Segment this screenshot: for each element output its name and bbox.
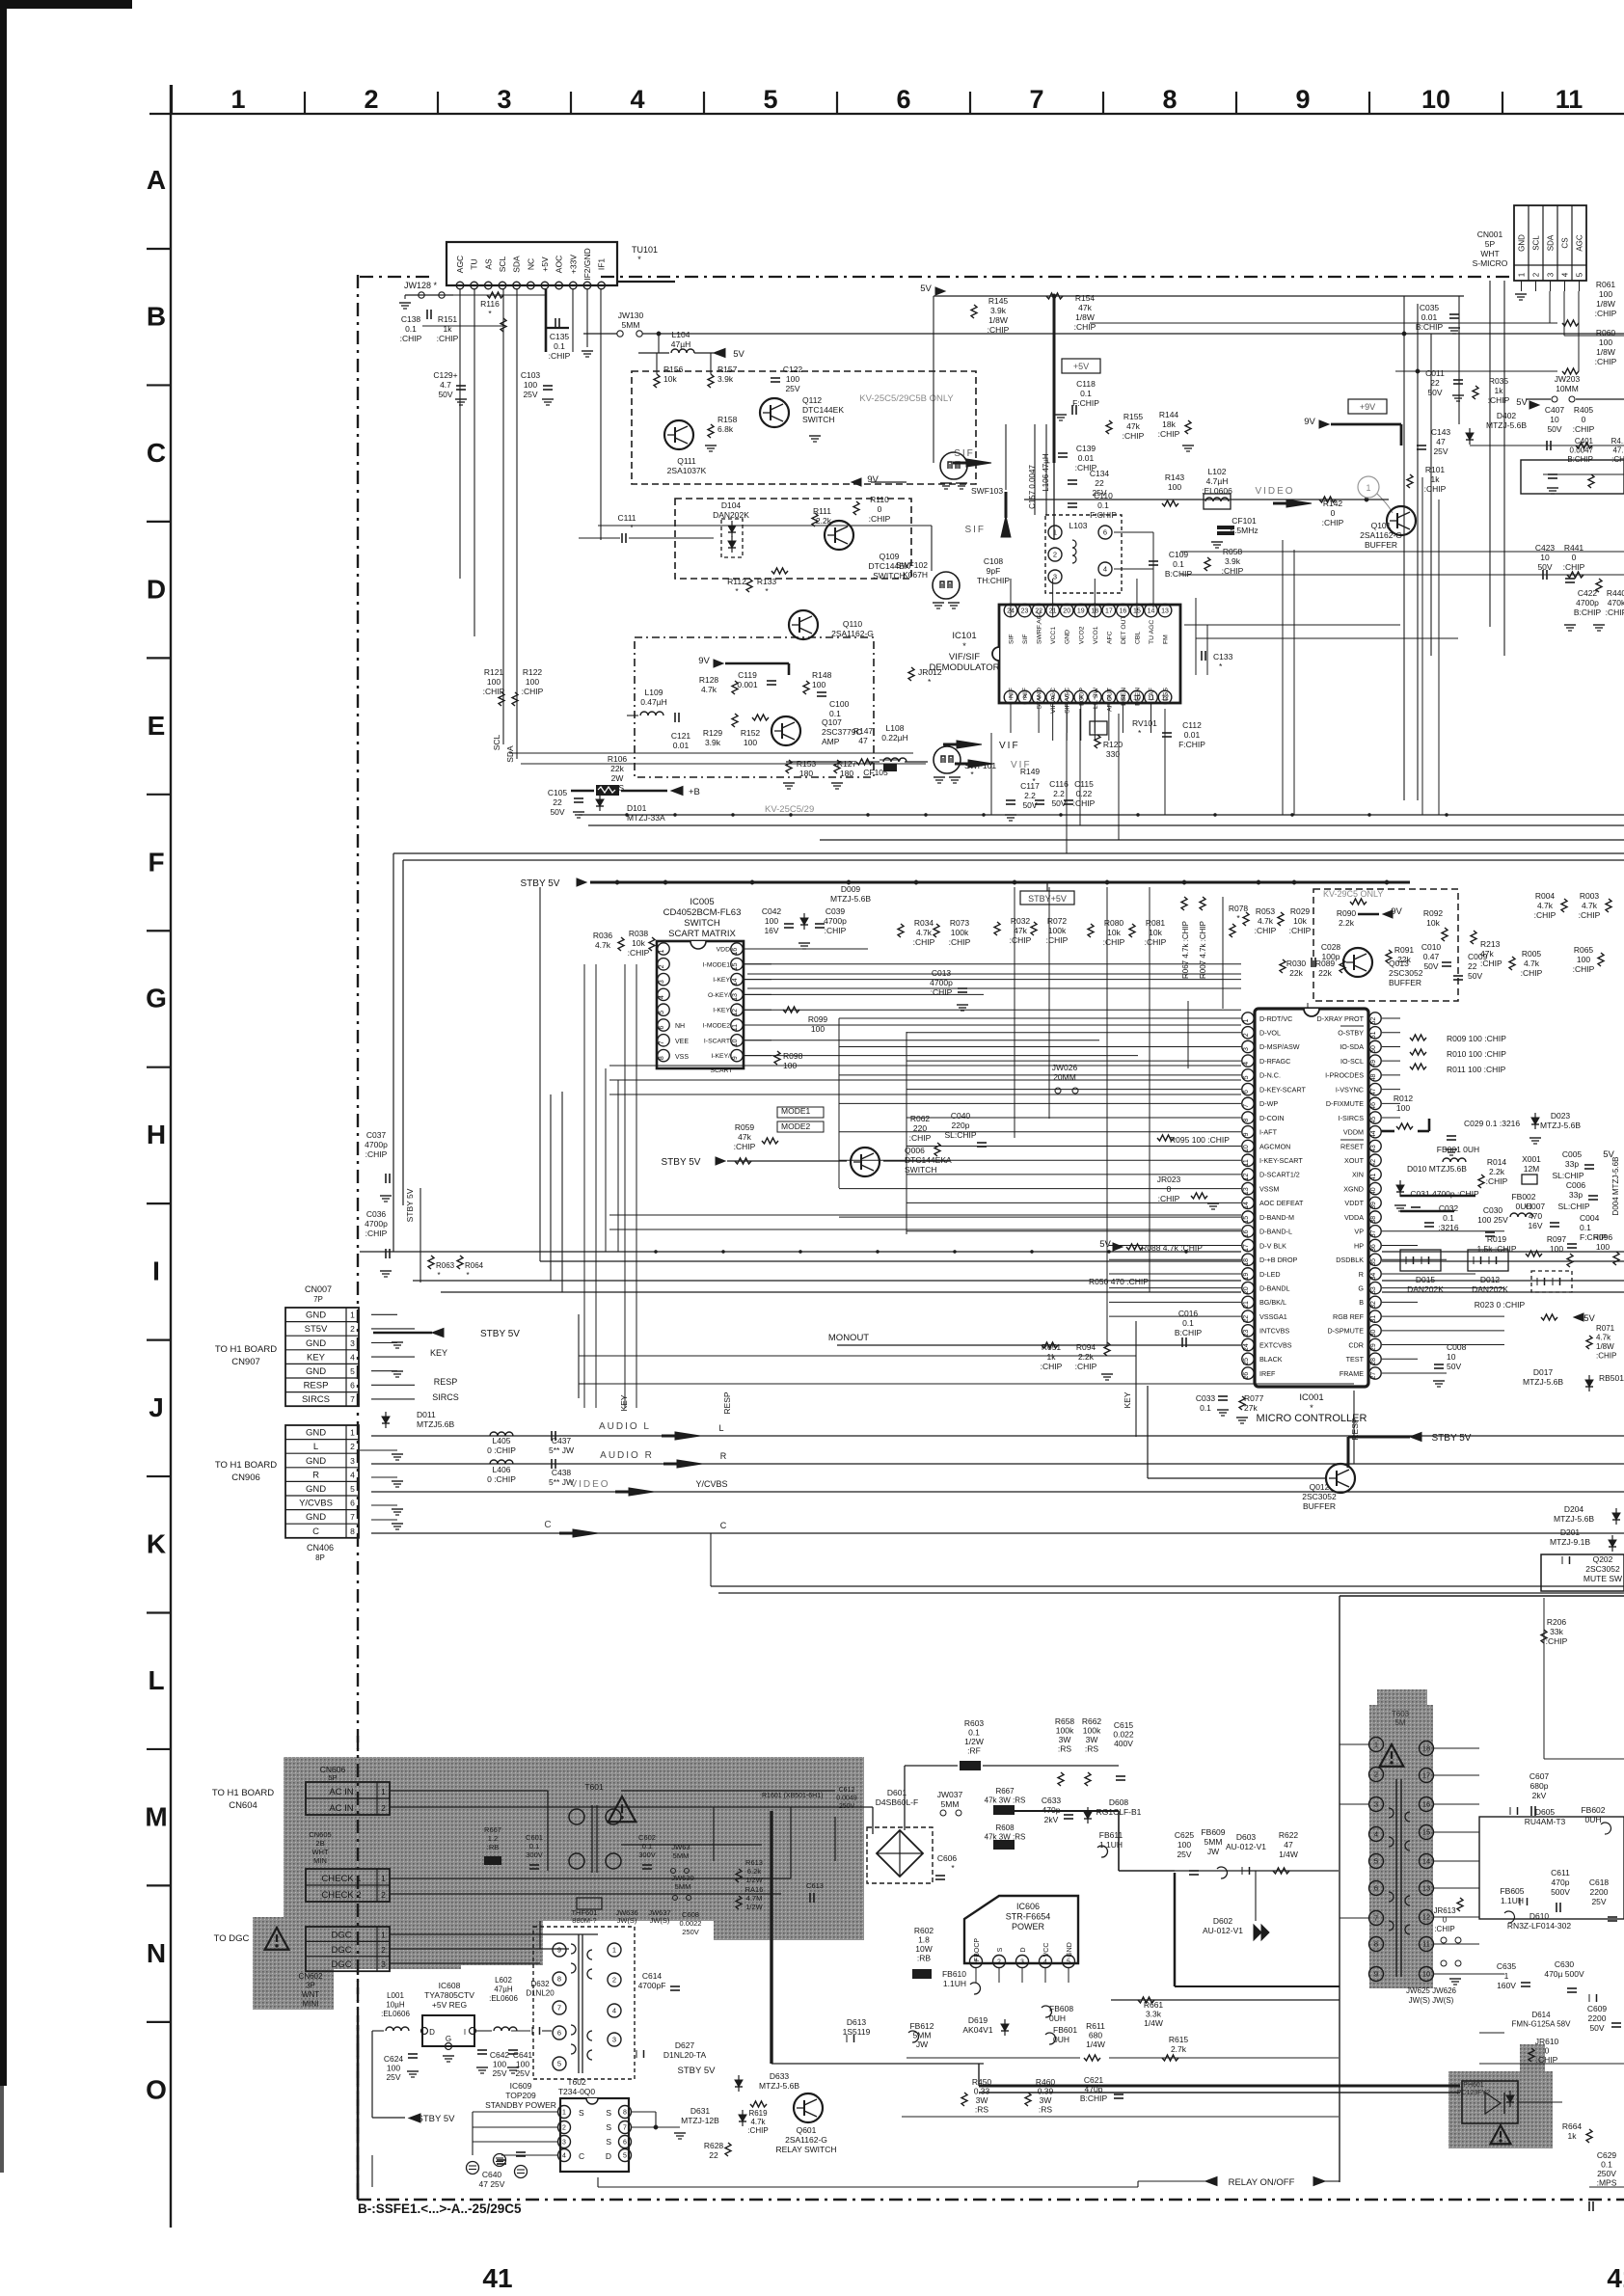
- svg-text:0.01: 0.01: [1184, 730, 1201, 740]
- svg-text:R206: R206: [1547, 1617, 1567, 1627]
- svg-text:2SC3052: 2SC3052: [1585, 1564, 1620, 1574]
- svg-text:FMN-G125A 58V: FMN-G125A 58V: [1512, 2020, 1572, 2029]
- svg-text:D-SCART1/2: D-SCART1/2: [1259, 1171, 1300, 1179]
- svg-text:16V: 16V: [1528, 1221, 1542, 1230]
- svg-text::EL0606: :EL0606: [489, 1994, 518, 2003]
- svg-text:C119: C119: [738, 670, 757, 680]
- svg-text:680: 680: [1089, 2031, 1102, 2040]
- svg-text:VCC: VCC: [1043, 1943, 1050, 1958]
- svg-text:D-FIXMUTE: D-FIXMUTE: [1326, 1099, 1364, 1108]
- svg-text:R091: R091: [1394, 945, 1415, 955]
- svg-text:JW625 JW626: JW625 JW626: [1406, 1986, 1457, 1995]
- svg-text:2SA1037K: 2SA1037K: [667, 466, 707, 475]
- svg-text:23: 23: [1243, 1329, 1250, 1337]
- svg-text:3.3k: 3.3k: [1146, 2010, 1162, 2019]
- svg-text:AC IN: AC IN: [329, 1787, 353, 1797]
- svg-text:44: 44: [1370, 1130, 1377, 1138]
- svg-text:R099: R099: [808, 1014, 828, 1024]
- svg-text::CHIP: :CHIP: [437, 334, 459, 343]
- svg-text:SCL: SCL: [492, 734, 501, 750]
- svg-text:50V: 50V: [1537, 562, 1552, 572]
- svg-text:HP: HP: [1354, 1241, 1364, 1250]
- svg-text:O-KEY/: O-KEY/: [708, 992, 730, 999]
- svg-text::CHIP: :CHIP: [913, 937, 935, 947]
- svg-text:470µ 500V: 470µ 500V: [1544, 1969, 1584, 1979]
- svg-text:C108: C108: [984, 556, 1004, 566]
- svg-text:R063: R063: [436, 1261, 455, 1270]
- svg-text:JW(S): JW(S): [617, 1916, 637, 1925]
- svg-text:42: 42: [1370, 1159, 1377, 1167]
- svg-text:D: D: [1020, 1947, 1027, 1952]
- svg-text:250V: 250V: [1597, 2169, 1616, 2178]
- svg-text:4.7k: 4.7k: [916, 928, 933, 937]
- svg-text:17: 17: [1243, 1244, 1250, 1252]
- svg-text:4: 4: [1243, 1062, 1250, 1066]
- svg-text:R661: R661: [1144, 2000, 1164, 2010]
- svg-text:1/2W: 1/2W: [745, 1876, 763, 1884]
- svg-text:STR-F6654: STR-F6654: [1006, 1912, 1051, 1922]
- svg-text:2.2: 2.2: [1024, 791, 1036, 800]
- svg-text:C100: C100: [829, 699, 850, 709]
- svg-text:R072: R072: [1047, 916, 1068, 926]
- svg-text::CHIP: :CHIP: [1434, 1925, 1454, 1933]
- svg-text:C629: C629: [1597, 2150, 1617, 2160]
- svg-text:DEMODULATOR: DEMODULATOR: [929, 662, 999, 673]
- svg-text:L104: L104: [672, 330, 690, 339]
- svg-text:STBY+5V: STBY+5V: [1028, 894, 1067, 904]
- svg-text:+9V: +9V: [1360, 402, 1375, 412]
- svg-text:DET OUT: DET OUT: [1121, 615, 1127, 644]
- svg-text:BUFFER: BUFFER: [1389, 978, 1421, 987]
- svg-text::CHIP: :CHIP: [1255, 926, 1277, 935]
- svg-text:D602: D602: [1213, 1916, 1233, 1926]
- svg-text:IO-SCL: IO-SCL: [1340, 1057, 1364, 1066]
- svg-text:1/2W: 1/2W: [745, 1903, 763, 1911]
- svg-text:0.22: 0.22: [1076, 789, 1093, 798]
- svg-text:C: C: [147, 438, 166, 468]
- svg-text:C607: C607: [1529, 1771, 1550, 1781]
- svg-text:C042: C042: [762, 906, 782, 916]
- svg-text:JW128 *: JW128 *: [404, 281, 438, 290]
- svg-text:22: 22: [1243, 1315, 1250, 1323]
- svg-text:2: 2: [350, 1442, 355, 1451]
- svg-text:1: 1: [659, 950, 665, 954]
- svg-text:GND: GND: [306, 1484, 326, 1495]
- svg-text:25V: 25V: [386, 2072, 400, 2082]
- svg-text:R050 470 :CHIP: R050 470 :CHIP: [1089, 1277, 1149, 1286]
- svg-text::RS: :RS: [1085, 1744, 1099, 1754]
- svg-text:CBL: CBL: [1134, 632, 1141, 644]
- svg-text:22: 22: [1430, 378, 1440, 388]
- svg-text:R096: R096: [1593, 1232, 1613, 1242]
- svg-text::CHIP: :CHIP: [1546, 1636, 1568, 1646]
- svg-text:MUTE SW: MUTE SW: [1583, 1574, 1622, 1583]
- svg-text:D627: D627: [675, 2040, 695, 2050]
- svg-text:C407: C407: [1545, 405, 1565, 415]
- svg-text:T602: T602: [567, 2077, 586, 2087]
- svg-text:R154: R154: [1075, 293, 1096, 303]
- svg-text:47k: 47k: [1078, 303, 1092, 312]
- svg-text:FBOCP: FBOCP: [974, 1938, 981, 1961]
- svg-text:7: 7: [623, 2125, 627, 2132]
- svg-text:R615: R615: [1169, 2035, 1189, 2044]
- svg-text:3P: 3P: [306, 1982, 315, 1990]
- svg-text:C033: C033: [1196, 1393, 1216, 1403]
- svg-text:C: C: [544, 1520, 551, 1530]
- svg-text:180: 180: [799, 769, 813, 778]
- svg-text:R622: R622: [1279, 1830, 1299, 1840]
- svg-text:Y/CVBS: Y/CVBS: [299, 1499, 333, 1509]
- svg-text:JW: JW: [1207, 1847, 1219, 1856]
- svg-text:1: 1: [562, 2110, 566, 2117]
- svg-text:BLACK: BLACK: [1259, 1355, 1283, 1364]
- svg-text:R145: R145: [988, 296, 1009, 306]
- svg-text:8P: 8P: [315, 1553, 325, 1562]
- svg-text:20: 20: [1243, 1286, 1250, 1294]
- svg-text:7: 7: [350, 1394, 355, 1404]
- svg-text:22k: 22k: [1318, 968, 1332, 978]
- svg-text:4: 4: [350, 1352, 355, 1362]
- svg-text:180: 180: [840, 769, 853, 778]
- svg-text:10: 10: [1447, 1352, 1456, 1362]
- svg-text:R014: R014: [1487, 1157, 1507, 1167]
- svg-text:1/8W: 1/8W: [1075, 312, 1095, 322]
- svg-text:25V: 25V: [1433, 446, 1448, 456]
- svg-text:AU-012-V1: AU-012-V1: [1226, 1842, 1266, 1851]
- svg-text:C143: C143: [1431, 427, 1451, 437]
- svg-text:10: 10: [1421, 85, 1450, 114]
- svg-text:C: C: [312, 1526, 319, 1537]
- svg-text:0.01: 0.01: [1421, 312, 1438, 322]
- svg-text:41: 41: [482, 2263, 512, 2293]
- svg-text:VIDEO: VIDEO: [1255, 486, 1294, 497]
- svg-text:2kV: 2kV: [1532, 1791, 1547, 1800]
- svg-text:51: 51: [1370, 1031, 1377, 1039]
- svg-text:100k: 100k: [1056, 1726, 1074, 1736]
- svg-text:39: 39: [1370, 1202, 1377, 1209]
- svg-text:VDD: VDD: [717, 947, 730, 954]
- svg-text::CHIP: :CHIP: [1521, 968, 1543, 978]
- svg-text:DEEN: DEEN: [1121, 688, 1127, 706]
- svg-text:22k: 22k: [1397, 955, 1411, 964]
- svg-text:10k: 10k: [663, 374, 677, 384]
- svg-text:C031 4700p :CHIP: C031 4700p :CHIP: [1410, 1189, 1479, 1199]
- svg-text:L: L: [313, 1442, 318, 1452]
- svg-text:11: 11: [1422, 1940, 1430, 1949]
- svg-text:0.1: 0.1: [405, 324, 417, 334]
- svg-text:C116: C116: [1049, 779, 1069, 789]
- svg-text::CHIP: :CHIP: [1010, 935, 1032, 945]
- svg-text:D-MSP/ASW: D-MSP/ASW: [1259, 1042, 1300, 1051]
- svg-text:100: 100: [1596, 1242, 1610, 1252]
- svg-text:F: F: [148, 847, 164, 877]
- svg-text:0: 0: [1582, 415, 1586, 424]
- svg-text:R092: R092: [1423, 908, 1444, 918]
- svg-text:R078: R078: [1229, 904, 1249, 913]
- svg-text:C606: C606: [937, 1853, 958, 1863]
- svg-text:4: 4: [1103, 565, 1107, 574]
- svg-text:C438: C438: [552, 1468, 572, 1477]
- svg-text:2: 2: [381, 1803, 386, 1813]
- svg-text:RESP: RESP: [304, 1381, 329, 1391]
- svg-text:1k: 1k: [444, 324, 453, 334]
- svg-text:3: 3: [1243, 1047, 1250, 1051]
- svg-text:RESET: RESET: [1340, 1142, 1365, 1150]
- svg-text:C613: C613: [806, 1881, 824, 1890]
- svg-text:SWITCH: SWITCH: [802, 415, 835, 424]
- svg-text:50V: 50V: [1468, 971, 1482, 981]
- svg-text:STAND: STAND: [1037, 688, 1043, 710]
- svg-text:R157: R157: [717, 365, 738, 374]
- svg-text:STBY 5V: STBY 5V: [480, 1329, 520, 1339]
- svg-text:FB001 0UH: FB001 0UH: [1437, 1145, 1479, 1154]
- svg-text:AGC: AGC: [455, 256, 465, 273]
- svg-text:JR610: JR610: [1535, 2037, 1559, 2046]
- svg-text:C006: C006: [1566, 1180, 1586, 1190]
- svg-text:0: 0: [878, 504, 882, 514]
- svg-text:21: 21: [1243, 1301, 1250, 1309]
- svg-text:47: 47: [1436, 437, 1446, 446]
- svg-text:0.47µH: 0.47µH: [640, 697, 667, 707]
- svg-text:1: 1: [1374, 1741, 1378, 1749]
- svg-text:22: 22: [1468, 961, 1477, 971]
- svg-text:13: 13: [1243, 1187, 1250, 1195]
- svg-text:FB609: FB609: [1201, 1827, 1225, 1837]
- svg-text:52: 52: [1370, 1017, 1377, 1025]
- svg-text:4.7µH: 4.7µH: [1206, 476, 1229, 486]
- svg-text::CHIP: :CHIP: [365, 1149, 388, 1159]
- svg-text:C008: C008: [1447, 1342, 1467, 1352]
- svg-text:C618: C618: [1589, 1877, 1610, 1887]
- svg-text:SCL: SCL: [498, 256, 507, 272]
- svg-text:R081: R081: [1146, 918, 1166, 928]
- svg-text:D-V BLK: D-V BLK: [1259, 1241, 1286, 1250]
- svg-text:R122: R122: [523, 667, 543, 677]
- svg-text:C007: C007: [1526, 1202, 1546, 1211]
- svg-text:C: C: [579, 2151, 584, 2161]
- svg-text:18: 18: [1422, 1744, 1430, 1753]
- svg-text:3: 3: [1547, 272, 1556, 277]
- svg-text:C115: C115: [1074, 779, 1094, 789]
- svg-text:SWITCH: SWITCH: [873, 571, 906, 581]
- svg-text:R667: R667: [484, 1825, 501, 1834]
- svg-text:D-BAND-L: D-BAND-L: [1259, 1228, 1292, 1236]
- svg-text:SDA: SDA: [1547, 234, 1556, 251]
- svg-text:9V: 9V: [867, 474, 879, 485]
- svg-text:JR023: JR023: [1157, 1175, 1181, 1184]
- svg-text:JW203: JW203: [1555, 374, 1581, 384]
- svg-text:28: 28: [1370, 1358, 1377, 1365]
- svg-text:49: 49: [1370, 1060, 1377, 1067]
- svg-text:5: 5: [659, 1011, 665, 1014]
- svg-text::RB: :RB: [487, 1843, 500, 1851]
- svg-text:SIF AGC: SIF AGC: [1065, 688, 1071, 714]
- svg-text:I-KEY-SCART: I-KEY-SCART: [1259, 1156, 1303, 1165]
- svg-text:0.01: 0.01: [1078, 453, 1095, 463]
- svg-text:CN604: CN604: [229, 1800, 257, 1811]
- svg-text:5MM: 5MM: [622, 320, 640, 330]
- svg-text:0: 0: [1545, 2046, 1550, 2056]
- svg-text:*: *: [466, 1271, 469, 1280]
- svg-text:R158: R158: [717, 415, 738, 424]
- svg-text:WHT: WHT: [311, 1848, 328, 1856]
- svg-text:5: 5: [350, 1484, 355, 1494]
- svg-text:D-VOL: D-VOL: [1259, 1029, 1281, 1038]
- svg-text:I-SIRCS: I-SIRCS: [1339, 1114, 1365, 1122]
- svg-text:*: *: [437, 1271, 440, 1280]
- svg-text:F:CHIP: F:CHIP: [1178, 740, 1205, 749]
- svg-text:R005: R005: [1522, 949, 1542, 959]
- svg-text:FB605: FB605: [1500, 1886, 1524, 1896]
- svg-text:B-:SSFE1.<...>-A..-25/29C5: B-:SSFE1.<...>-A..-25/29C5: [358, 2201, 522, 2216]
- svg-text:T603: T603: [1392, 1710, 1410, 1718]
- svg-text:4.7: 4.7: [440, 380, 451, 390]
- svg-text:1/8W: 1/8W: [1596, 299, 1615, 309]
- svg-text:0.1: 0.1: [1097, 500, 1109, 510]
- svg-text:100: 100: [812, 680, 826, 689]
- svg-text:R: R: [720, 1451, 727, 1461]
- svg-text:36: 36: [1370, 1244, 1377, 1252]
- svg-text:CD4052BCM-FL63: CD4052BCM-FL63: [663, 907, 742, 918]
- svg-text:I-KEY/: I-KEY/: [711, 1053, 730, 1060]
- svg-text:3: 3: [1020, 1959, 1024, 1966]
- svg-text:100: 100: [1599, 289, 1612, 299]
- svg-text::CHIP: :CHIP: [549, 351, 571, 361]
- svg-text:RELAY SWITCH: RELAY SWITCH: [776, 2145, 837, 2154]
- svg-text:GND: GND: [306, 1310, 326, 1321]
- svg-text:C612: C612: [839, 1787, 855, 1794]
- svg-text:C011: C011: [1425, 368, 1445, 378]
- svg-text:+5V: +5V: [1073, 362, 1089, 371]
- svg-text:1/8W: 1/8W: [1596, 1342, 1614, 1351]
- svg-text:SIRCS: SIRCS: [432, 1392, 459, 1402]
- svg-text:B: B: [147, 301, 166, 331]
- svg-text:9V: 9V: [698, 656, 710, 666]
- svg-text:1k: 1k: [1431, 474, 1441, 484]
- svg-text:330: 330: [1106, 749, 1120, 759]
- svg-text:46: 46: [1370, 1102, 1377, 1110]
- svg-text:10: 10: [732, 1039, 739, 1046]
- svg-text:CHECK 2: CHECK 2: [321, 1890, 361, 1901]
- svg-text:R149: R149: [1020, 767, 1041, 776]
- svg-text:25V: 25V: [1177, 1850, 1191, 1859]
- svg-text:D-XRAY PROT: D-XRAY PROT: [1317, 1014, 1365, 1023]
- svg-text:D015: D015: [1416, 1275, 1436, 1284]
- svg-text:50V: 50V: [550, 807, 564, 817]
- svg-text:5M: 5M: [1394, 1718, 1405, 1727]
- svg-text::CHIP: :CHIP: [1596, 1352, 1616, 1361]
- svg-text:AGC: AGC: [1576, 234, 1584, 252]
- svg-text:0.1: 0.1: [1601, 2160, 1612, 2170]
- svg-text:100: 100: [786, 374, 799, 384]
- svg-text::3216: :3216: [1438, 1223, 1459, 1232]
- svg-text:L103: L103: [1069, 521, 1088, 530]
- svg-text:D1NL20: D1NL20: [526, 1989, 555, 1998]
- svg-text:6: 6: [1374, 1884, 1378, 1893]
- svg-text:32: 32: [1370, 1301, 1377, 1309]
- svg-text:GND: GND: [306, 1428, 326, 1439]
- svg-text:8: 8: [1374, 1940, 1378, 1949]
- svg-text:0.022: 0.022: [1113, 1730, 1134, 1740]
- svg-text::CHIP: :CHIP: [1480, 959, 1502, 968]
- svg-text:C005: C005: [1562, 1149, 1583, 1159]
- svg-text:D: D: [606, 2151, 611, 2161]
- svg-text:L: L: [148, 1665, 164, 1695]
- svg-text:R147: R147: [853, 726, 874, 736]
- svg-text:25V: 25V: [515, 2068, 529, 2078]
- svg-text:G: G: [446, 2035, 451, 2043]
- svg-text:R023 0 :CHIP: R023 0 :CHIP: [1475, 1300, 1526, 1310]
- svg-text:16: 16: [1243, 1229, 1250, 1237]
- svg-text:D: D: [147, 574, 166, 604]
- svg-text:MINI: MINI: [303, 2000, 319, 2009]
- svg-text:CN001: CN001: [1477, 230, 1503, 239]
- svg-text:1/4W: 1/4W: [1086, 2039, 1105, 2049]
- svg-text:EXTCVBS: EXTCVBS: [1259, 1340, 1292, 1349]
- svg-text::CHIP: :CHIP: [1595, 357, 1617, 366]
- svg-text:1/8W: 1/8W: [1596, 347, 1615, 357]
- svg-text::CHIP: :CHIP: [909, 1133, 932, 1143]
- svg-text:47k: 47k: [1480, 949, 1494, 959]
- svg-text:+5V REG: +5V REG: [432, 2000, 467, 2010]
- svg-text:D619: D619: [968, 2015, 988, 2025]
- svg-text:CAF: CAF: [1149, 688, 1155, 701]
- svg-text:C039: C039: [826, 906, 846, 916]
- svg-text:SWITCH: SWITCH: [684, 918, 720, 929]
- svg-text:R153: R153: [797, 759, 817, 769]
- svg-text:R121: R121: [484, 667, 504, 677]
- svg-text:C029 0.1 :3216: C029 0.1 :3216: [1464, 1119, 1520, 1128]
- svg-text::RF: :RF: [967, 1746, 981, 1756]
- svg-text::CHIP: :CHIP: [1579, 910, 1601, 920]
- svg-text::CHIP: :CHIP: [1123, 431, 1145, 441]
- svg-text:6.8k: 6.8k: [717, 424, 734, 434]
- svg-text:C608: C608: [682, 1910, 699, 1919]
- svg-text:2: 2: [659, 964, 665, 968]
- svg-text::CHIP: :CHIP: [1488, 395, 1510, 405]
- svg-text:2B: 2B: [315, 1839, 324, 1848]
- svg-text:1/4W: 1/4W: [1279, 1850, 1298, 1859]
- svg-text:D-LED: D-LED: [1259, 1270, 1281, 1279]
- svg-text:TO H1 BOARD: TO H1 BOARD: [215, 1460, 277, 1471]
- svg-text:9: 9: [1295, 85, 1310, 114]
- svg-text:10k: 10k: [1107, 928, 1121, 937]
- svg-text:8: 8: [659, 1056, 665, 1060]
- svg-text:100 25V: 100 25V: [1477, 1215, 1508, 1225]
- svg-text:VIF AGC: VIF AGC: [1050, 688, 1057, 714]
- svg-text::CHIP: :CHIP: [1103, 937, 1125, 947]
- svg-text:C437: C437: [552, 1436, 572, 1445]
- svg-text:3W: 3W: [1040, 2095, 1052, 2105]
- svg-text:18: 18: [1243, 1258, 1250, 1266]
- svg-text:1: 1: [1366, 483, 1370, 493]
- svg-text:4.7k: 4.7k: [595, 940, 611, 950]
- svg-text:10W: 10W: [915, 1944, 932, 1954]
- svg-text:STBY 5V: STBY 5V: [678, 2066, 717, 2076]
- svg-text::CHIP: :CHIP: [949, 937, 971, 947]
- svg-text:MTZJ-5.6B: MTZJ-5.6B: [830, 894, 871, 904]
- svg-text:IF1: IF1: [597, 258, 607, 271]
- svg-text::CHIP: :CHIP: [1573, 964, 1595, 974]
- svg-text:C030: C030: [1483, 1205, 1503, 1215]
- svg-text:R097: R097: [1547, 1234, 1567, 1244]
- svg-text:S: S: [579, 2108, 584, 2118]
- svg-text:DGC: DGC: [331, 1930, 351, 1940]
- svg-text:BUFFER: BUFFER: [1365, 540, 1397, 550]
- svg-text::RS: :RS: [1039, 2105, 1053, 2115]
- svg-text:C133: C133: [1213, 652, 1233, 662]
- svg-text:CN907: CN907: [231, 1357, 260, 1367]
